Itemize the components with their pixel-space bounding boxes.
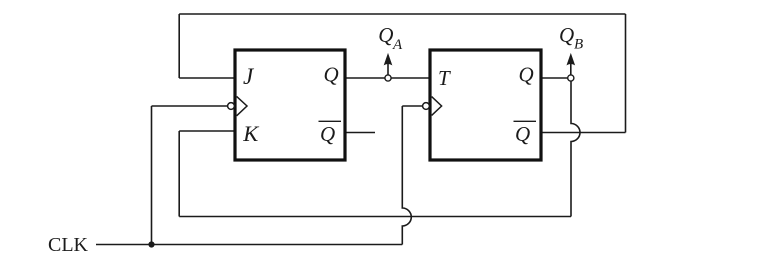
svg-text:CLK: CLK (48, 234, 89, 256)
svg-text:Q: Q (559, 23, 574, 47)
wire: U2 Q output (net QB) (541, 77, 571, 79)
wire: U1 clock input horizontal (152, 105, 228, 107)
wire: K feedback horizontal (179, 216, 571, 218)
wire: U1 Qbar stub (unconnected) (345, 132, 375, 134)
flip-flop U2 (T) box (430, 50, 541, 160)
wire: K input of U1 (179, 130, 235, 132)
junction dot at CLK branch (148, 241, 154, 247)
clock bubble U1 (228, 103, 235, 110)
svg-text:Q: Q (515, 122, 530, 146)
wire: feedback right vertical (625, 14, 627, 133)
wire: QB feedback vertical with hop over Qbar wire (571, 78, 580, 217)
wire: U2 Qbar output (net QB-bar) (541, 132, 626, 134)
svg-text:Q: Q (320, 122, 335, 146)
label net QA (378, 23, 403, 53)
node QA open terminal (385, 75, 391, 81)
label pin Qbar of U1 (319, 121, 342, 146)
wire: feedback left vertical (178, 14, 180, 78)
svg-text:K: K (242, 121, 259, 146)
svg-text:Q: Q (519, 63, 534, 87)
wire: J input of U1 (179, 77, 235, 79)
wire: U1 Q output to U2 T input (net QA) (345, 77, 430, 79)
label pin Qbar of U2 (514, 121, 537, 146)
arrow QA (384, 54, 392, 75)
flip-flop U1 (JK) box (235, 50, 345, 160)
wire: CLK vertical to U1 clock (151, 106, 153, 245)
wire: CLK vertical to U2 clock with hop over K wire (402, 106, 411, 245)
svg-text:A: A (392, 37, 403, 53)
arrow QB (567, 54, 575, 75)
wire: CLK horizontal (96, 244, 402, 246)
node QB open terminal (568, 75, 574, 81)
clock wedge U2 (432, 97, 442, 116)
svg-text:B: B (574, 37, 583, 53)
wire: U2 clock input horizontal (402, 105, 422, 107)
svg-text:T: T (438, 66, 451, 90)
svg-text:Q: Q (378, 23, 393, 47)
clock wedge U1 (237, 96, 247, 115)
clock bubble U2 (423, 103, 430, 110)
wire: feedback top horizontal (179, 13, 625, 15)
wire: K feedback vertical (178, 131, 180, 217)
svg-text:J: J (243, 64, 255, 89)
label net QB (559, 23, 583, 53)
svg-text:Q: Q (324, 63, 339, 87)
